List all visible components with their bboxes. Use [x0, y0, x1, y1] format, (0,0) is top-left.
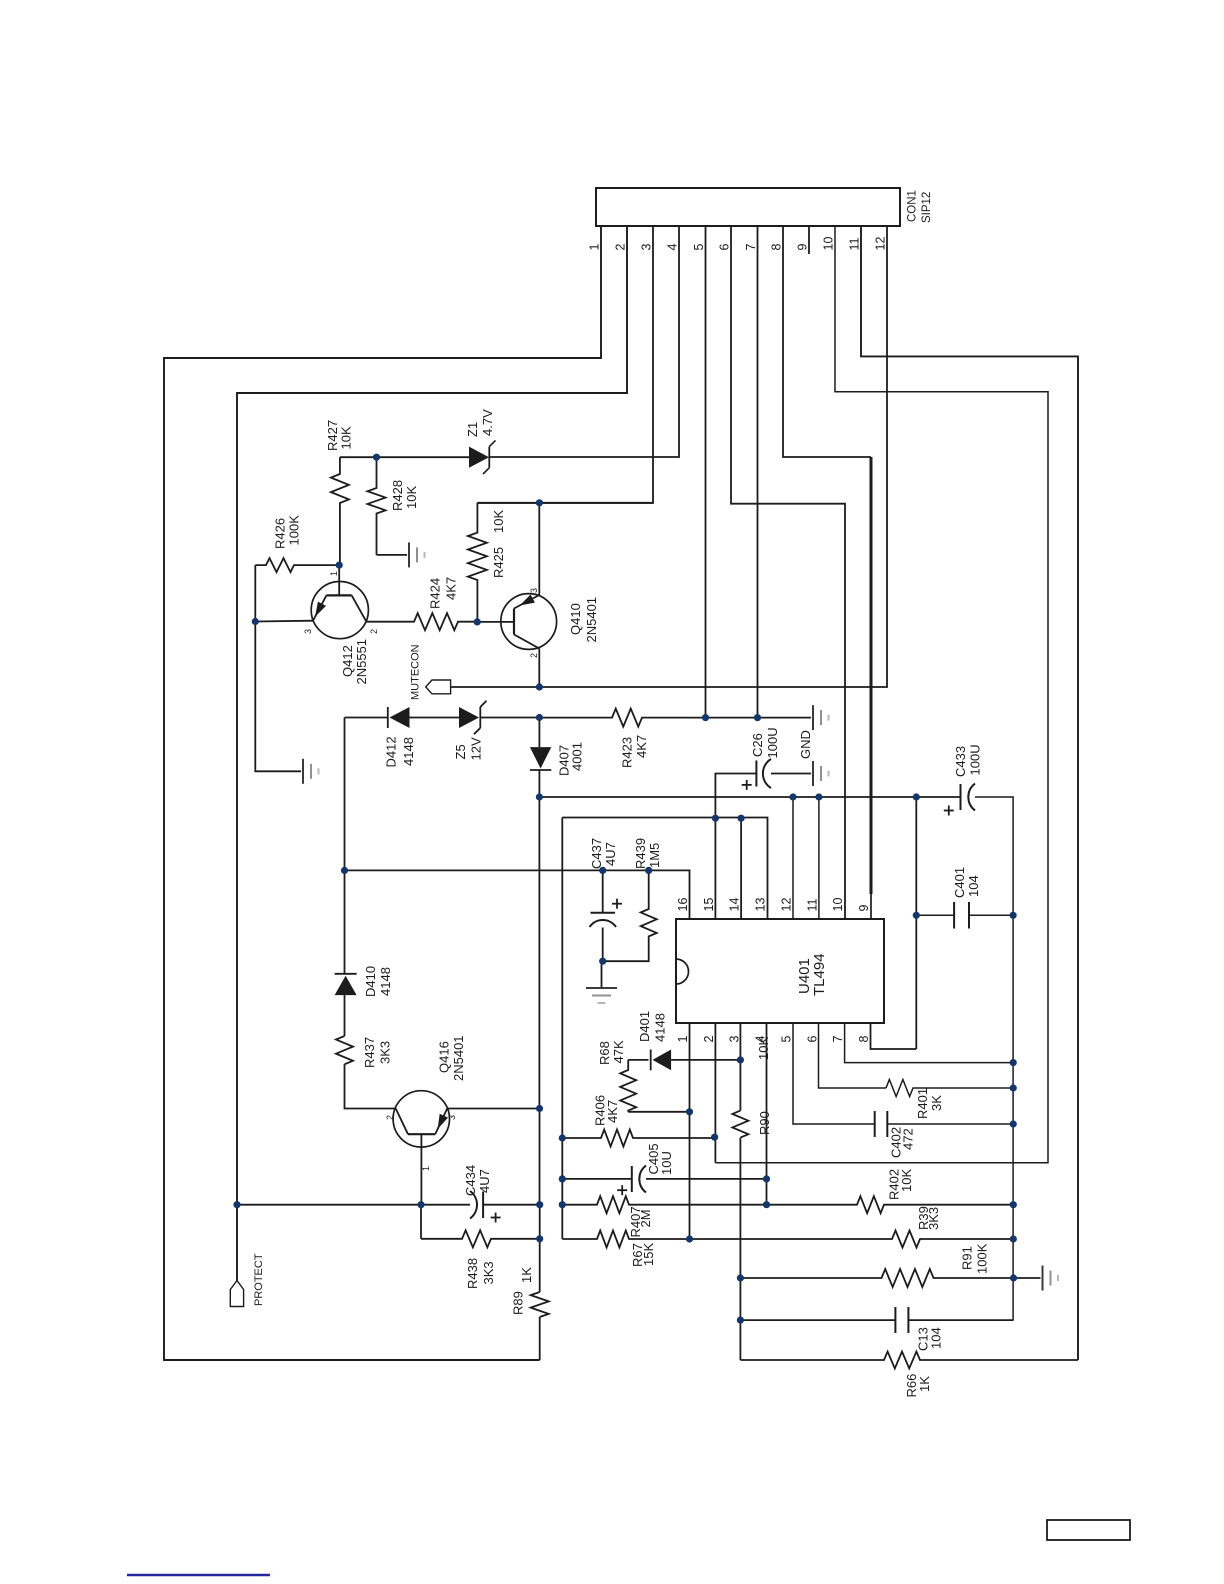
svg-text:13: 13	[754, 898, 768, 912]
wire R89 to frame	[539, 1317, 541, 1360]
connector MUTECON arrow	[426, 680, 451, 694]
wire R91 ground stub	[1014, 1277, 1041, 1279]
wire C401 line	[916, 914, 954, 916]
wire IC5 corner	[793, 1023, 875, 1124]
svg-text:1M5: 1M5	[647, 843, 662, 868]
svg-text:16: 16	[676, 898, 690, 912]
svg-text:R425: R425	[491, 547, 506, 578]
svg-text:4001: 4001	[570, 742, 585, 771]
svg-text:1K: 1K	[917, 1376, 932, 1392]
wire R68 top / D401 line	[628, 1059, 648, 1061]
svg-text:2: 2	[385, 1115, 395, 1120]
resistor R66	[740, 1352, 1078, 1369]
wire C26 right to ground	[771, 773, 811, 775]
wire pin11 route right edge down to R66	[861, 226, 1078, 1360]
svg-text:100U: 100U	[968, 744, 983, 775]
plus C437	[612, 903, 622, 905]
svg-text:R91: R91	[960, 1246, 975, 1270]
wire R90 down to R66 corner	[739, 1138, 741, 1360]
resistor R89	[531, 1292, 549, 1317]
wire pin10 route to IC pin2	[715, 226, 1048, 1163]
capacitor C26	[755, 761, 757, 787]
wire IC6 corner	[819, 1023, 887, 1088]
wire pin7 down to ground rail	[757, 226, 759, 718]
wire R425 top line	[477, 502, 653, 504]
svg-text:10: 10	[831, 898, 845, 912]
svg-text:4: 4	[666, 244, 680, 251]
svg-text:R90: R90	[757, 1111, 772, 1135]
svg-text:7: 7	[831, 1036, 845, 1043]
svg-text:9: 9	[857, 905, 871, 912]
resistor R438	[421, 1230, 540, 1247]
svg-text:C437: C437	[589, 838, 604, 869]
svg-text:3K3: 3K3	[481, 1261, 496, 1284]
wire R426 left down to emitter	[254, 565, 256, 621]
svg-text:8: 8	[770, 244, 784, 251]
svg-text:2: 2	[529, 653, 539, 658]
svg-text:R438: R438	[465, 1258, 480, 1289]
resistor R428	[368, 457, 386, 555]
wire Z5 node down to D407	[538, 718, 540, 748]
wire IC4 vertical	[766, 1023, 768, 1205]
wire pin9 stub	[808, 226, 810, 254]
svg-text:PROTECT: PROTECT	[253, 1253, 265, 1306]
wire Q412 emitter ground run	[255, 622, 301, 772]
svg-text:104: 104	[966, 875, 981, 897]
ground R428	[408, 542, 410, 567]
wire R438 branch	[420, 1205, 422, 1239]
diode D412	[387, 707, 389, 728]
wire R437 to Q416 collector	[345, 1064, 396, 1108]
plus C26	[742, 784, 752, 786]
transistor Q412 2N5551	[311, 582, 368, 639]
wire IC2 vertical	[714, 1023, 716, 1163]
transistor Q416 2N5401	[393, 1091, 449, 1147]
resistor R91	[740, 1269, 1013, 1287]
svg-text:10K: 10K	[404, 486, 419, 509]
wire D407 to bus	[538, 770, 540, 797]
wire IC15 stub	[714, 818, 716, 919]
wire IC3-R90 vertical	[739, 1023, 741, 1111]
svg-text:SIP12: SIP12	[921, 192, 933, 223]
wire Q416 emitter to node	[447, 1108, 539, 1110]
capacitor C13	[894, 1307, 896, 1333]
wire ground rail past pin7	[706, 717, 812, 719]
svg-text:3K: 3K	[929, 1095, 944, 1111]
capacitor C402	[874, 1111, 876, 1137]
plus C405	[617, 1189, 627, 1191]
wire IC7 corner	[845, 1023, 1014, 1063]
svg-text:R401: R401	[915, 1088, 930, 1119]
wire pin8 route to IC pin9	[783, 226, 871, 457]
wire pin2 to PROTECT rail	[237, 226, 627, 1281]
ground Q412 emitter	[302, 759, 304, 784]
resistor R425	[468, 503, 487, 622]
revision box	[1047, 1520, 1130, 1540]
svg-text:R426: R426	[273, 518, 288, 549]
svg-text:4148: 4148	[378, 967, 393, 996]
capacitor C433	[960, 784, 962, 810]
svg-text:10K: 10K	[756, 1037, 771, 1060]
svg-text:472: 472	[901, 1128, 916, 1150]
wire protect rail	[237, 1204, 470, 1206]
svg-text:C434: C434	[463, 1165, 478, 1196]
svg-text:47K: 47K	[611, 1040, 626, 1063]
connector PROTECT arrow	[230, 1281, 243, 1307]
svg-text:12: 12	[779, 898, 793, 912]
ground R91	[1042, 1266, 1044, 1291]
wire pin3 down-left to R425 node	[477, 226, 653, 503]
wire C437 ground stub	[601, 961, 603, 988]
svg-text:2: 2	[614, 244, 628, 251]
svg-text:10: 10	[822, 237, 836, 251]
wire x540 vertical bus to Q416	[538, 797, 540, 1109]
wire Q412 emitter to junction	[255, 620, 313, 623]
resistor R426	[255, 558, 339, 572]
diode D407	[530, 747, 551, 768]
svg-text:4K7: 4K7	[444, 577, 459, 600]
svg-text:104: 104	[929, 1327, 944, 1349]
capacitor C405 line	[562, 1178, 632, 1180]
capacitor C437	[591, 912, 616, 914]
svg-text:3: 3	[529, 588, 539, 593]
resistor R401	[886, 1080, 1013, 1097]
resistor R439	[641, 870, 657, 955]
svg-text:100K: 100K	[975, 1243, 990, 1274]
wire C437 top stub	[602, 870, 604, 912]
svg-text:3K3: 3K3	[378, 1041, 393, 1064]
svg-text:2: 2	[369, 629, 379, 634]
svg-text:2: 2	[702, 1036, 716, 1043]
svg-text:Z5: Z5	[453, 744, 468, 759]
svg-text:Q416: Q416	[437, 1041, 452, 1073]
wire Z1 line to R427 top	[340, 456, 469, 458]
resistor R39	[690, 1231, 1014, 1248]
wire IC11 stub	[818, 797, 820, 919]
junction dots	[336, 562, 343, 569]
connector CON1 SIP12 body	[596, 188, 900, 226]
svg-text:Q410: Q410	[568, 603, 583, 635]
wire IC1 vertical	[689, 1023, 691, 1239]
svg-text:14: 14	[728, 898, 742, 912]
resistor R437	[336, 1036, 353, 1064]
resistor R402	[767, 1196, 1014, 1213]
resistor R406	[562, 1130, 714, 1147]
svg-text:R68: R68	[597, 1041, 612, 1065]
plus C433	[944, 810, 954, 812]
svg-text:5: 5	[779, 1036, 793, 1043]
svg-text:TL494: TL494	[811, 953, 828, 996]
svg-text:R423: R423	[620, 737, 635, 768]
wire R428 to ground	[377, 554, 408, 556]
svg-text:C26: C26	[750, 733, 765, 757]
wire MUTECON to node	[451, 686, 540, 688]
svg-text:1: 1	[421, 1166, 431, 1171]
svg-text:4148: 4148	[401, 737, 416, 766]
wire C405 right	[646, 1178, 767, 1180]
svg-text:R439: R439	[633, 838, 648, 869]
svg-text:1: 1	[588, 244, 602, 251]
svg-text:12V: 12V	[469, 737, 484, 760]
svg-text:9: 9	[796, 244, 810, 251]
wire D410 to R437	[344, 995, 346, 1036]
svg-text:7: 7	[744, 244, 758, 251]
svg-text:11: 11	[848, 237, 862, 250]
ground C26	[812, 761, 814, 786]
svg-text:2M: 2M	[638, 1209, 653, 1227]
wire IC12 stub	[792, 797, 794, 919]
svg-text:10K: 10K	[491, 510, 506, 533]
svg-text:D401: D401	[637, 1011, 652, 1042]
ground C437	[586, 987, 617, 989]
wire R68 bottom to IC1	[628, 1111, 689, 1113]
svg-text:D410: D410	[363, 966, 378, 997]
svg-text:2N5401: 2N5401	[451, 1035, 466, 1081]
svg-text:C433: C433	[953, 746, 968, 777]
wire D412 to Z5	[410, 717, 460, 719]
svg-text:2N5401: 2N5401	[584, 597, 599, 643]
wire x916 vertical	[915, 797, 917, 1049]
svg-text:4148: 4148	[653, 1013, 668, 1042]
svg-text:4K7: 4K7	[634, 735, 649, 758]
wire Q410 collector down	[538, 649, 540, 688]
svg-text:10K: 10K	[339, 426, 354, 449]
svg-text:R437: R437	[362, 1037, 377, 1068]
svg-text:15: 15	[702, 898, 716, 912]
resistor R90	[732, 1111, 748, 1138]
resistor R67	[562, 1231, 689, 1248]
svg-text:10K: 10K	[899, 1169, 914, 1192]
IC U401 TL494 body	[676, 919, 884, 1023]
transistor Q410 2N5401	[501, 594, 557, 650]
wire Q410 emitter up	[538, 503, 540, 595]
svg-text:3: 3	[303, 629, 313, 634]
wire R439 bottom corner	[603, 955, 649, 961]
svg-text:4K7: 4K7	[605, 1100, 620, 1123]
svg-text:CON1: CON1	[907, 190, 919, 222]
wire pin5 down to ground rail	[705, 226, 707, 718]
wire pin4 to Z1	[490, 226, 680, 457]
wire x540 to R89	[539, 1205, 541, 1292]
wire mute rail to D410	[344, 718, 346, 974]
svg-text:R89: R89	[511, 1291, 526, 1315]
resistor R407	[562, 1196, 766, 1213]
svg-text:5: 5	[692, 244, 706, 251]
capacitor C401	[953, 902, 955, 929]
svg-text:100U: 100U	[765, 727, 780, 758]
plus C434	[491, 1217, 501, 1219]
wire VCC bus	[539, 796, 960, 798]
wire C402 right	[887, 1123, 1013, 1125]
svg-text:4.7V: 4.7V	[480, 409, 495, 436]
svg-text:11: 11	[805, 898, 819, 911]
svg-text:15K: 15K	[641, 1243, 656, 1266]
svg-text:Z1: Z1	[465, 422, 480, 437]
svg-text:Q412: Q412	[340, 645, 355, 677]
wire Z5 to node	[480, 717, 539, 719]
wire pin12 down to mute node line	[539, 226, 887, 687]
thick wire pin8-IC9 vertical	[870, 457, 873, 894]
capacitor C405	[631, 1166, 633, 1192]
wire pin6 route to IC pin10	[731, 226, 845, 919]
resistor R424	[366, 613, 477, 630]
wire IC pins 13-15 rail	[562, 818, 767, 920]
svg-text:3: 3	[640, 244, 654, 251]
svg-text:2N5551: 2N5551	[354, 639, 369, 685]
svg-text:4U7: 4U7	[603, 842, 618, 866]
svg-text:1: 1	[676, 1036, 690, 1043]
ground R423 rail	[812, 705, 814, 730]
wire pin1 to frame	[164, 226, 601, 1360]
svg-text:100K: 100K	[287, 515, 302, 546]
svg-text:MUTECON: MUTECON	[410, 644, 422, 700]
svg-text:6: 6	[718, 244, 732, 251]
wire C26 left	[715, 774, 756, 819]
svg-text:R428: R428	[390, 480, 405, 511]
svg-text:3K3: 3K3	[926, 1207, 941, 1230]
wire IC14 stub	[740, 818, 742, 919]
svg-text:10U: 10U	[659, 1151, 674, 1175]
diode D410	[335, 973, 357, 975]
svg-text:12: 12	[874, 237, 888, 251]
capacitor C434	[470, 1191, 477, 1219]
wire x562 rail down	[561, 818, 563, 1240]
svg-text:R424: R424	[428, 578, 443, 609]
svg-text:3: 3	[447, 1115, 457, 1120]
svg-text:D412: D412	[384, 736, 399, 767]
wire IC8 jog	[871, 1023, 917, 1049]
svg-text:GND: GND	[798, 730, 813, 759]
svg-text:1: 1	[329, 571, 339, 576]
blue footer line	[127, 1574, 270, 1577]
wire error amp rail y870	[345, 870, 690, 919]
resistor R68	[620, 1060, 636, 1112]
wire C437 bottom	[602, 928, 604, 962]
svg-text:4U7: 4U7	[477, 1169, 492, 1193]
zener Z1	[469, 447, 489, 468]
svg-text:8: 8	[857, 1036, 871, 1043]
wire x540 down to C434	[539, 1109, 541, 1205]
capacitor C13 line	[740, 1319, 895, 1321]
zener Z5	[459, 707, 479, 728]
wire C433 right corner down	[975, 797, 1013, 1320]
svg-text:1K: 1K	[519, 1267, 534, 1283]
resistor R423	[539, 709, 705, 727]
svg-text:6: 6	[805, 1036, 819, 1043]
resistor R427	[331, 457, 349, 565]
diode D401	[650, 1050, 652, 1071]
svg-text:C401: C401	[952, 867, 967, 898]
wire mute rail left corner	[345, 717, 388, 719]
